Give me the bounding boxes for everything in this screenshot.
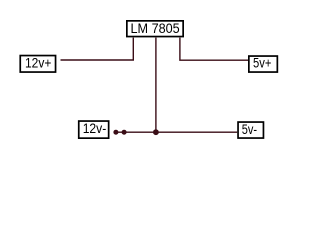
terminal 5v- box [238,122,263,138]
wire: U1 pin 2 (ground) down to ground rail [155,38,157,133]
junction dot A on ground rail [113,130,118,135]
terminal 5v+ box [249,56,278,72]
junction dot C: ground rail meets U1 pin 2 [153,129,159,135]
terminal 12v+ label [25,55,51,71]
svg-text:12v+: 12v+ [25,55,51,71]
svg-text:LM 7805: LM 7805 [131,20,180,36]
terminal 12v- label [83,120,107,136]
svg-text:12v-: 12v- [83,120,107,136]
regulator U1 box [127,21,183,37]
svg-text:5v+: 5v+ [253,55,271,71]
wire: U1 pin 3 (output) to 5v+ terminal [180,38,248,61]
wire: 12v+ terminal to U1 pin 1 (input) [61,38,134,60]
regulator U1 value label LM 7805 [131,20,180,36]
svg-text:5v-: 5v- [242,121,258,137]
junction dot B on ground rail [122,130,127,135]
terminal 5v- label [242,121,258,137]
terminal 12v- box [79,121,109,138]
wire: ground rail 12v- to 5v- [114,131,238,133]
terminal 12v+ box [20,56,55,73]
terminal 5v+ label [253,55,271,71]
